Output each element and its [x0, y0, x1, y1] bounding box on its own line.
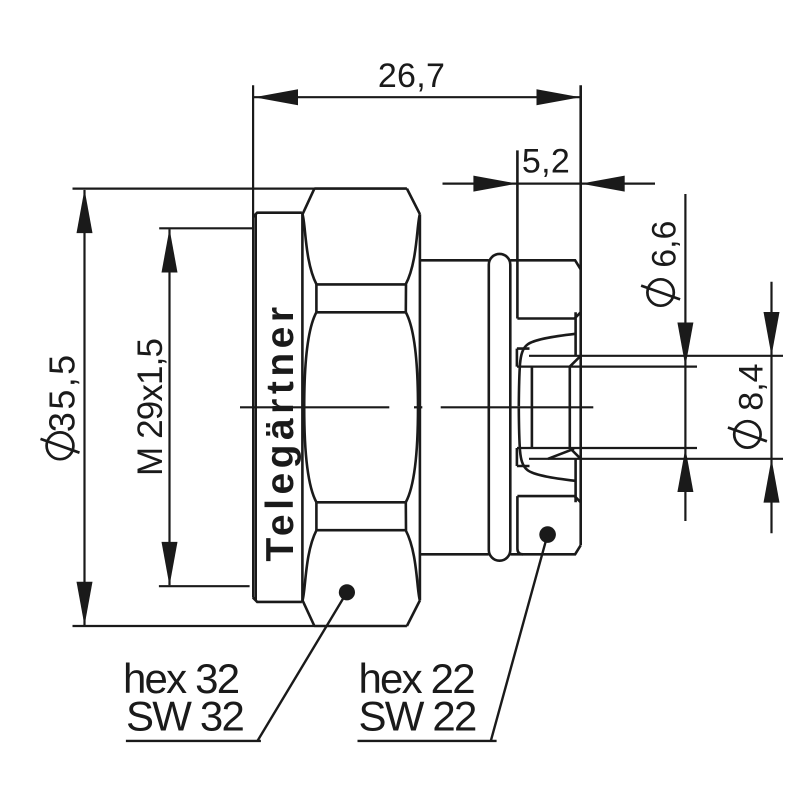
bore silhouette lines with entry chamfer diagonals	[517, 312, 580, 502]
lower cavity chamfer diagonal	[548, 449, 574, 459]
dimension 5,2 arrowheads	[473, 176, 624, 192]
hex 32 top facet chamfer arcs	[303, 214, 420, 284]
inner face line of hex22 merged with 5,2 extension line	[517, 150, 523, 554]
svg-text:35,5: 35,5	[42, 352, 83, 432]
hex 32 bottom facet chamfer arcs	[303, 530, 420, 600]
dimension text dia 6,6 (rotated, with diameter symbol)	[641, 221, 683, 306]
cylindrical body section between hex 32 and ring	[420, 260, 489, 554]
bore rim verticals at interface face	[574, 312, 577, 502]
hex 22 interface section silhouette with face chamfers	[510, 260, 580, 554]
dimension text M 29x1,5 (rotated)	[131, 339, 170, 476]
dimension dia 8,4: extension + dimension lines	[529, 282, 783, 534]
svg-text:8,4: 8,4	[733, 363, 771, 410]
svg-text:M 29x1,5: M 29x1,5	[131, 339, 170, 476]
outer contact spring finger curve upper	[519, 334, 576, 407]
svg-text:SW 22: SW 22	[359, 693, 476, 740]
dimension text dia 8,4 (rotated, with diameter symbol)	[728, 363, 771, 447]
svg-text:5,2: 5,2	[522, 143, 570, 181]
dimension 5,2: dimension line	[443, 183, 656, 185]
finger root shelves	[517, 349, 530, 466]
label hex 22 / SW 22	[359, 655, 476, 740]
leader for hex 32 label: dot, line, underline	[126, 584, 355, 741]
socket entry chamfer diagonals	[570, 356, 581, 459]
hex 32 coupling nut silhouette with corner chamfers	[303, 189, 420, 626]
raised ring (capsule) on body	[489, 254, 511, 561]
dimension dia 8,4 arrowheads	[764, 312, 780, 503]
label hex 32 / SW 32	[123, 655, 243, 740]
inner contact socket verticals	[532, 367, 570, 448]
dimension dia 6,6: extension + dimension lines	[517, 194, 697, 521]
hex 32 upper groove band	[316, 284, 406, 312]
svg-text:26,7: 26,7	[378, 57, 445, 95]
hex 32 middle facet arc left	[304, 312, 316, 502]
dimension text dia 35,5 (rotated, with diameter symbol)	[41, 352, 83, 459]
dimension 26,7 arrowheads	[254, 89, 580, 105]
outer contact spring finger curve lower	[519, 408, 576, 481]
dimension dia 6,6 arrowheads	[677, 323, 693, 493]
leader for hex 22 label: dot, line, underline	[358, 526, 556, 741]
svg-text:6,6: 6,6	[646, 221, 684, 268]
brand text Telegärtner on flange (rotated)	[259, 302, 302, 561]
dimension M 29x1,5 arrowheads	[162, 229, 178, 586]
dimension dia 35,5 arrowheads	[77, 189, 93, 625]
dimension 26,7: extension + dimension lines	[253, 85, 580, 597]
right interface face edge merged with dimension extension line	[579, 85, 582, 545]
svg-text:SW 32: SW 32	[126, 693, 243, 740]
flange disc at left end of connector body	[253, 213, 303, 602]
svg-text:Telegärtner: Telegärtner	[259, 302, 302, 561]
hex 32 lower groove band	[316, 502, 406, 530]
dimension M 29x1,5: extension + dimension lines	[159, 228, 253, 586]
dimension dia 35,5: extension + dimension lines	[73, 189, 315, 626]
hex 32 middle facet arc right	[406, 312, 418, 502]
centerline (horizontal dash-dot axis)	[240, 406, 593, 408]
